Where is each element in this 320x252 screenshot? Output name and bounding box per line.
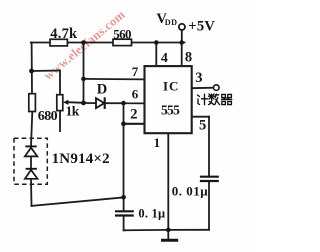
svg-text:7: 7 xyxy=(132,64,139,79)
svg-text:0. 1μ: 0. 1μ xyxy=(138,207,165,221)
svg-text:1N914×2: 1N914×2 xyxy=(52,151,110,167)
svg-text:560: 560 xyxy=(113,26,131,41)
svg-text:0. 01μ: 0. 01μ xyxy=(172,184,209,199)
svg-text:3: 3 xyxy=(195,70,202,86)
svg-text:4.7k: 4.7k xyxy=(50,26,78,42)
svg-text:6: 6 xyxy=(132,86,139,101)
svg-text:5: 5 xyxy=(199,117,206,133)
svg-text:555: 555 xyxy=(161,103,180,118)
svg-text:DD: DD xyxy=(165,18,178,27)
svg-text:680: 680 xyxy=(38,109,58,124)
svg-text:IC: IC xyxy=(163,78,179,93)
svg-text:2: 2 xyxy=(130,107,137,123)
svg-text:8: 8 xyxy=(185,50,192,66)
svg-text:D: D xyxy=(97,82,107,98)
svg-text:1k: 1k xyxy=(66,104,80,119)
svg-text:1: 1 xyxy=(154,135,161,150)
svg-text:4: 4 xyxy=(161,51,168,66)
svg-text:+5V: +5V xyxy=(188,19,215,35)
